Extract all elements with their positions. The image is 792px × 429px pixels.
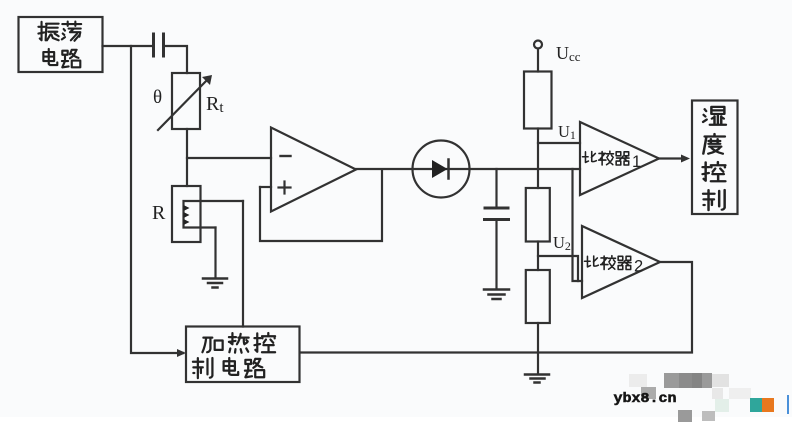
wire to filter capacitor C2: [495, 169, 497, 207]
feedback loop wire: [260, 170, 382, 242]
svg-text:R: R: [152, 202, 166, 224]
resistor R2 (divider middle): [526, 188, 550, 242]
comparator 2: [582, 226, 660, 298]
Ucc terminal: [534, 41, 542, 72]
svg-text:Ucc: Ucc: [556, 43, 581, 64]
svg-text:U1: U1: [558, 122, 576, 142]
divider wire R2-R3: [537, 242, 539, 271]
comparator 2 output loop to heater box: [300, 262, 692, 353]
capacitor C1: [154, 34, 164, 56]
mosaic watermark blocks: [629, 374, 647, 387]
capacitor C2: [485, 208, 509, 220]
op-amp U1: [271, 128, 356, 212]
main signal line to comparator 1: [470, 168, 581, 170]
wire Rt bottom to node and to R top: [186, 129, 188, 186]
resistor R1 (divider top): [524, 72, 552, 129]
left rail wire down from junction: [131, 46, 183, 353]
Rt arrow diagonal: [158, 75, 212, 130]
resistor R3 (divider bottom): [526, 270, 550, 323]
box humidity control 湿度控制: [692, 101, 738, 215]
ground 1: [203, 279, 227, 288]
op-amp minus sign: [281, 155, 291, 157]
wire from oscillator to capacitor C1: [103, 45, 154, 47]
svg-text:U2: U2: [553, 233, 571, 253]
R inner tap element: [184, 201, 244, 228]
svg-text:ybx8.cn: ybx8.cn: [614, 391, 677, 407]
thermistor Rt: [172, 73, 200, 129]
op-amp output wire to current source: [356, 168, 413, 170]
wire node to op-amp inverting input: [187, 157, 271, 159]
svg-text:θ: θ: [153, 87, 162, 108]
resistor R (heater sensing): [172, 186, 201, 242]
current source / diode circle: [413, 141, 470, 198]
wire U1 node to comparator 1: [538, 142, 580, 144]
wire U2 node toward comparator 2: [538, 256, 578, 281]
svg-text:Rt: Rt: [206, 93, 224, 116]
signal branch down to comparator 2: [573, 169, 583, 281]
ground 2: [525, 375, 549, 383]
wire tap to heater box top: [242, 201, 244, 327]
box oscillator 振荡电路: [19, 17, 103, 72]
wire R3 to ground 2: [537, 323, 539, 373]
box heater control 加热控制电路: [186, 327, 300, 383]
svg-text:2: 2: [634, 258, 643, 276]
wire from C1 to Rt top: [165, 46, 188, 73]
wire C2 to ground 3: [495, 221, 497, 288]
divider wire R1-R2: [537, 129, 539, 189]
comparator 1 output arrow: [659, 155, 690, 163]
wire to ground 1: [214, 228, 216, 279]
ground 3: [484, 290, 509, 300]
svg-text:1: 1: [632, 153, 641, 171]
op-amp plus sign: [279, 182, 291, 194]
op-amp non-inverting input wire: [260, 186, 271, 188]
arrowhead into heater box: [177, 349, 186, 357]
comparator 1: [580, 122, 659, 195]
